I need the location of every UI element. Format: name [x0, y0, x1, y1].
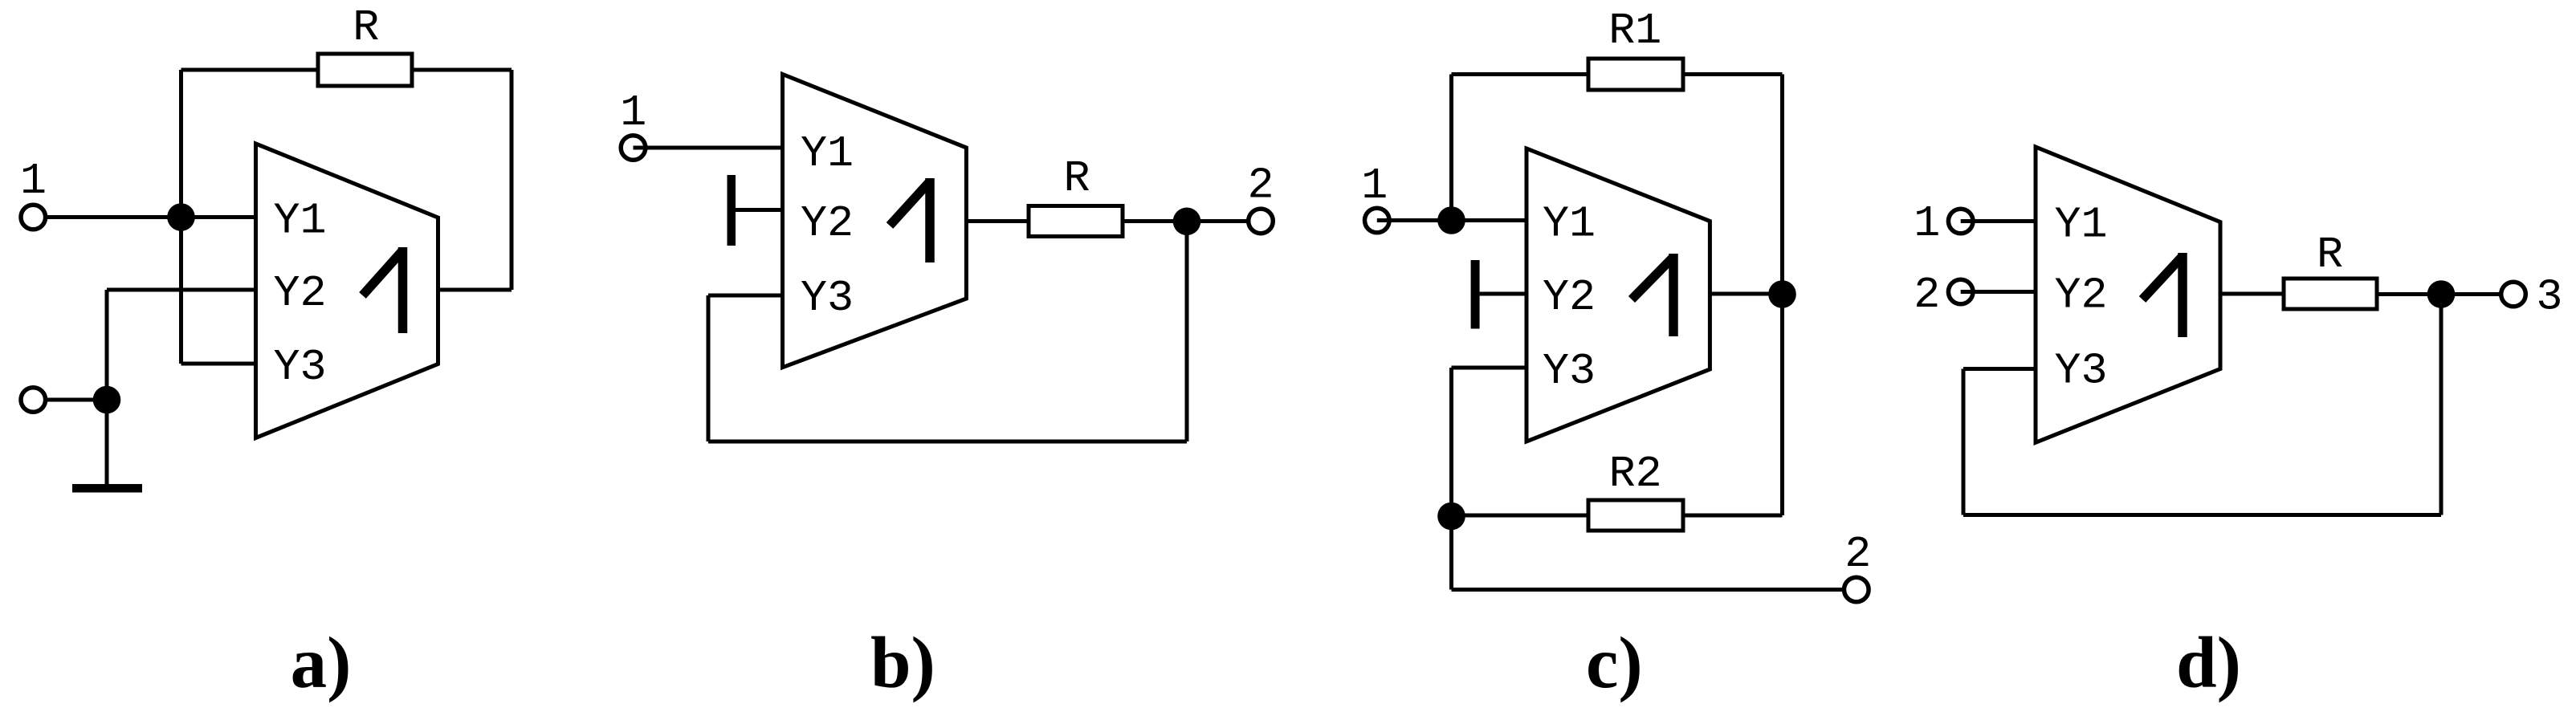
amplifier A4 — [2036, 147, 2220, 442]
svg-text:Y3: Y3 — [274, 342, 327, 393]
svg-text:Y1: Y1 — [801, 128, 854, 179]
terminal 2 — [1844, 577, 1869, 602]
wire output stub — [2220, 292, 2284, 296]
wire input to Y1 — [634, 146, 783, 150]
amplifier A3 — [1526, 149, 1710, 441]
ground — [72, 484, 142, 493]
svg-text:Y2: Y2 — [1543, 272, 1596, 323]
junction dot Y2 — [93, 386, 121, 414]
wire right vertical — [510, 70, 514, 290]
wire input to Y1 — [1377, 218, 1526, 222]
wire output stub — [438, 288, 512, 292]
wire Y2 left — [107, 288, 256, 292]
wire feedback up — [707, 295, 711, 441]
wire down to output row — [1449, 516, 1453, 590]
wire Y3 stub — [181, 362, 256, 366]
resistor R — [2284, 230, 2377, 309]
terminal 1 — [1948, 209, 1973, 234]
wire left vertical — [1449, 75, 1453, 221]
terminal 1 — [21, 205, 48, 230]
svg-text:1: 1 — [620, 87, 646, 138]
wire bottom to terminal 2 — [1452, 588, 1857, 592]
svg-text:Y3: Y3 — [801, 273, 854, 323]
terminal 2 — [1249, 209, 1274, 234]
svg-text:R1: R1 — [1608, 6, 1661, 56]
resistor R1 — [1588, 6, 1683, 90]
wire left vertical feedback — [179, 70, 183, 364]
svg-text:R: R — [353, 2, 379, 53]
terminal 1 — [621, 136, 646, 161]
wire output stub — [966, 219, 1029, 223]
wire feedback up — [2439, 295, 2444, 515]
junction dot output — [1173, 208, 1201, 236]
resistor R — [1029, 153, 1123, 237]
junction dot output — [2427, 280, 2456, 308]
svg-text:R: R — [2317, 230, 2343, 280]
wire R2 right — [1683, 514, 1783, 518]
svg-text:Y3: Y3 — [2055, 345, 2108, 396]
wire right vertical — [1780, 75, 1784, 516]
wire top left — [181, 68, 319, 72]
junction dot Y1 — [1437, 206, 1465, 234]
svg-text:2: 2 — [1914, 270, 1940, 320]
wire top left — [1452, 72, 1589, 76]
svg-text:R2: R2 — [1609, 449, 1662, 499]
svg-text:c): c) — [1586, 622, 1643, 703]
svg-text:1: 1 — [1914, 198, 1940, 249]
wire Y3 stub — [1963, 367, 2036, 371]
svg-text:Y2: Y2 — [801, 198, 854, 249]
wire feedback bottom — [708, 440, 1187, 444]
svg-text:b): b) — [870, 622, 935, 703]
svg-text:Y3: Y3 — [1543, 346, 1596, 397]
svg-text:1: 1 — [20, 156, 47, 206]
terminal 3 — [2501, 282, 2526, 307]
wire feedback down — [1185, 222, 1189, 441]
wire feedback down — [1962, 369, 1966, 515]
junction dot output — [1768, 280, 1796, 308]
resistor R — [318, 2, 412, 86]
svg-text:a): a) — [291, 622, 352, 703]
svg-text:d): d) — [2176, 622, 2241, 703]
wire Y2 down — [105, 290, 109, 400]
wire Y3 stub — [1452, 366, 1527, 370]
amplifier A2 — [783, 74, 967, 367]
wire ground to Y2 — [1480, 292, 1526, 296]
svg-text:1: 1 — [1361, 161, 1388, 211]
amplifier A1 — [256, 144, 438, 438]
wire resistor to terminal 3 — [2377, 292, 2513, 296]
terminal (unlabeled) — [21, 388, 46, 413]
wire Y3 down — [1449, 368, 1453, 516]
ground bar Y2 — [728, 175, 736, 246]
terminal 1 — [1365, 208, 1390, 233]
junction dot R2 — [1437, 502, 1465, 531]
junction dot Y1 — [167, 203, 195, 231]
wire top right — [412, 68, 512, 72]
svg-text:Y2: Y2 — [2055, 270, 2108, 320]
wire to left terminal — [33, 398, 107, 402]
svg-text:2: 2 — [1844, 529, 1871, 580]
wire resistor to terminal 2 — [1123, 219, 1261, 223]
wire feedback to Y3 — [708, 294, 783, 298]
svg-text:Y1: Y1 — [2055, 199, 2108, 250]
svg-text:Y1: Y1 — [1543, 198, 1596, 249]
wire output stub — [1710, 292, 1782, 296]
svg-text:Y2: Y2 — [274, 268, 327, 319]
wire input to Y1 — [44, 215, 256, 219]
svg-text:R: R — [1063, 153, 1090, 204]
wire top right — [1683, 72, 1783, 76]
wire input 1 to Y1 — [1961, 219, 2036, 223]
wire to ground — [105, 400, 109, 484]
wire feedback bottom — [1963, 513, 2441, 517]
svg-text:3: 3 — [2536, 271, 2562, 322]
svg-text:2: 2 — [1247, 161, 1274, 211]
terminal 2 — [1948, 279, 1973, 304]
ground bar Y2 — [1471, 260, 1480, 329]
svg-text:Y1: Y1 — [274, 195, 327, 246]
wire ground to Y2 — [736, 208, 783, 212]
resistor R2 — [1588, 449, 1683, 531]
wire R2 left — [1452, 514, 1589, 518]
wire input 2 to Y2 — [1961, 290, 2036, 294]
